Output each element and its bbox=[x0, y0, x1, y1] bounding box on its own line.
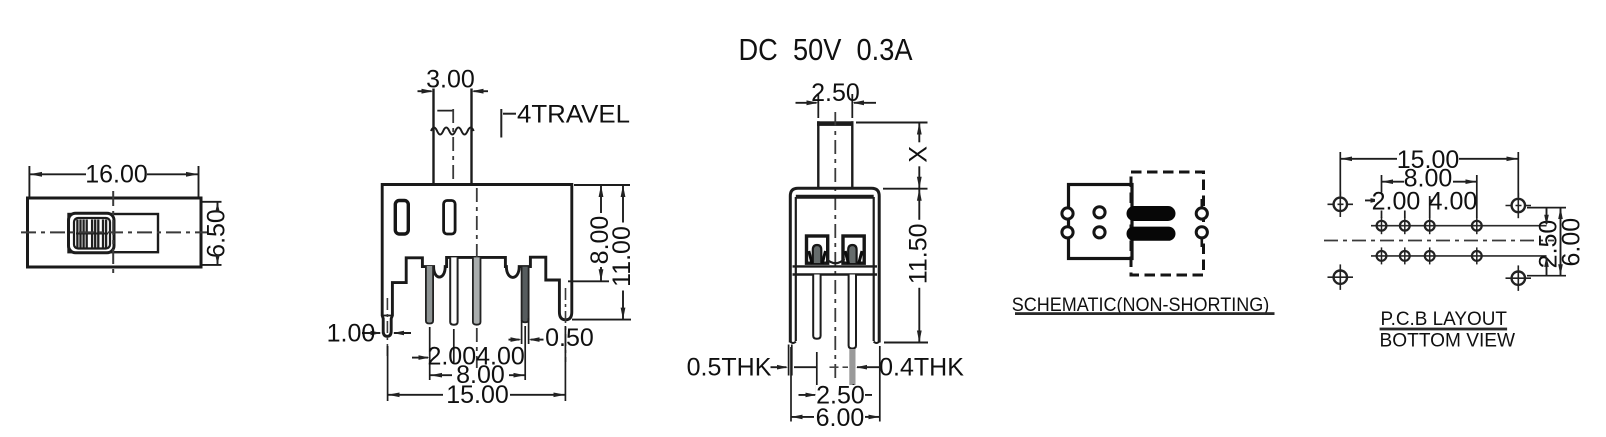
0.5THK leader bbox=[771, 366, 787, 368]
front view stem edges bbox=[432, 89, 434, 185]
dim 11.50 extension line bottom bbox=[884, 342, 928, 344]
svg-text:0.4THK: 0.4THK bbox=[879, 354, 964, 382]
pcb pad row lines bbox=[1371, 225, 1547, 227]
dim 2.50 bottom extension lines bbox=[816, 352, 818, 400]
svg-text:X: X bbox=[905, 146, 933, 163]
svg-text:DC 50V 0.3A: DC 50V 0.3A bbox=[739, 32, 913, 67]
dim pcb 4.00 text bbox=[1429, 188, 1478, 216]
side view contact crimps bbox=[809, 251, 862, 264]
svg-text:P.C.B LAYOUT: P.C.B LAYOUT bbox=[1380, 308, 1507, 330]
top view vertical centerline bbox=[112, 191, 114, 275]
top view knob inner outline bbox=[74, 218, 110, 249]
dim pcb 8.00 extension lines bbox=[1381, 175, 1383, 218]
svg-text:6.50: 6.50 bbox=[203, 209, 231, 258]
svg-text:1.00: 1.00 bbox=[327, 320, 376, 348]
dim 16.00 dimension line bbox=[29, 173, 86, 175]
side view left contact box bbox=[807, 236, 828, 263]
dim pcb 2.50 text (rotated) bbox=[1535, 220, 1563, 269]
dim 6.50 dimension line bbox=[217, 202, 219, 208]
dim X extension lines bbox=[856, 122, 928, 124]
svg-text:11.50: 11.50 bbox=[904, 223, 932, 284]
dim pcb 8.00 dimension line bbox=[1382, 181, 1407, 183]
schematic dashed frame bbox=[1131, 172, 1204, 275]
pcb big hole top-right bbox=[1506, 193, 1532, 219]
pcb big hole bottom-right bbox=[1506, 265, 1532, 291]
pcb big hole top-left bbox=[1328, 192, 1354, 218]
dim 11.00 text (rotated) bbox=[608, 223, 636, 291]
pin extension lines for bottom dims bbox=[429, 327, 431, 380]
dim 15.00 dimension line bbox=[388, 394, 443, 396]
side view base plate bbox=[793, 265, 878, 267]
front view stem centerline bbox=[452, 109, 454, 200]
front view pin 2 bbox=[450, 257, 457, 324]
dim X dimension line bbox=[918, 123, 920, 189]
side view right inner pin bbox=[849, 275, 856, 349]
dim 6.00 extension lines bbox=[790, 347, 792, 422]
dim 0.50 leader bbox=[509, 339, 520, 341]
schematic right terminal stubs bbox=[1201, 199, 1204, 208]
dim 6.50 text (rotated) bbox=[203, 209, 231, 259]
side view stem edges bbox=[817, 121, 819, 189]
dim 2.50 top dimension line bbox=[796, 102, 817, 104]
front view right mounting slot bbox=[444, 201, 456, 235]
svg-text:4TRAVEL: 4TRAVEL bbox=[517, 101, 630, 129]
svg-text:BOTTOM VIEW: BOTTOM VIEW bbox=[1380, 330, 1516, 352]
svg-text:0.50: 0.50 bbox=[545, 324, 594, 352]
dim pcb 6.00 extension lines bbox=[1527, 207, 1566, 209]
dim 8.00 right extension lines bbox=[574, 184, 630, 186]
dim pcb 6.00 dimension line bbox=[1560, 208, 1562, 276]
dim 6.50 extension lines bbox=[202, 201, 222, 203]
side view centerline bbox=[834, 112, 836, 380]
pcb small pads row 1 bbox=[1377, 217, 1482, 234]
top view knob serration hatch bbox=[77, 220, 106, 248]
side view left inner pin bbox=[813, 275, 820, 339]
front view right leg centerline bbox=[565, 288, 567, 362]
side view centre cup bbox=[827, 259, 845, 263]
svg-text:11.00: 11.00 bbox=[608, 226, 636, 287]
dim X text (rotated) bbox=[905, 142, 933, 166]
schematic solid frame bbox=[1069, 185, 1133, 259]
dim 0.50 extension ticks bbox=[521, 320, 523, 344]
svg-text:2.00: 2.00 bbox=[1372, 188, 1421, 216]
0.5THK leg thickness extension lines bbox=[788, 345, 790, 376]
side view frame inner top line bbox=[796, 195, 874, 199]
dim pcb 2.50 dimension line bbox=[1546, 208, 1548, 225]
svg-text:6.00: 6.00 bbox=[1557, 218, 1585, 267]
front view stem travel tick bbox=[437, 110, 453, 112]
front view left leg crimp bbox=[382, 315, 392, 317]
side view right contact box bbox=[843, 236, 864, 263]
top view knob outer bbox=[69, 213, 115, 253]
dim 8.00 right dimension line bbox=[600, 185, 602, 281]
dim pcb 6.00 text (rotated) bbox=[1557, 218, 1585, 267]
front view body outline bbox=[382, 185, 572, 337]
dim pcb 15.00 dimension line bbox=[1340, 158, 1397, 160]
dim 15.00 extension lines bbox=[387, 346, 389, 401]
svg-text:3.00: 3.00 bbox=[426, 66, 475, 94]
side view right contact pin head bbox=[848, 245, 856, 263]
dim pcb 15.00 extension lines bbox=[1339, 152, 1341, 196]
side view frame leg bottoms bbox=[790, 342, 796, 344]
side view frame inner edges bbox=[795, 197, 797, 341]
pcb title underline bbox=[1380, 328, 1508, 331]
schematic title underline bbox=[1015, 312, 1275, 315]
pcb centerline horizontal bbox=[1324, 240, 1554, 242]
dim 11.50 text (rotated) bbox=[904, 220, 932, 288]
dim 8.00 right text (rotated) bbox=[586, 213, 614, 267]
pcb small pads row 2 bbox=[1377, 247, 1482, 264]
front view left leg centerline bbox=[386, 298, 388, 360]
dim pcb 2.00 extension lines bbox=[1404, 196, 1406, 218]
pcb big hole bottom-left bbox=[1328, 264, 1354, 290]
dim 6.00 dimension line bbox=[791, 416, 814, 418]
dim 2.50 top extension lines bbox=[817, 94, 819, 118]
dim 11.00 dimension line bbox=[622, 185, 624, 320]
svg-text:0.5THK: 0.5THK bbox=[687, 354, 772, 382]
4TRAVEL leader bbox=[500, 109, 502, 138]
dim pcb 2.00 text bbox=[1372, 188, 1421, 216]
dim 11.00 extension line bottom bbox=[572, 319, 631, 321]
side view stem cap bbox=[817, 121, 854, 126]
front view pin 1 bbox=[426, 266, 433, 324]
front view stem break zigzag bbox=[431, 128, 474, 135]
side view left contact pin head bbox=[813, 245, 822, 263]
schematic terminal circles bbox=[1062, 207, 1208, 238]
dim 8.00 bottom dimension line bbox=[430, 374, 452, 376]
dim pcb 8.00 text bbox=[1404, 165, 1453, 193]
dim 11.50 dimension line bbox=[918, 189, 920, 343]
schematic wiper bar top bbox=[1127, 206, 1176, 221]
front view pin 4 bbox=[522, 267, 529, 323]
dim 16.00 extension lines bbox=[28, 166, 30, 197]
front view pin 3 bbox=[473, 257, 481, 324]
front view left mounting slot bbox=[395, 201, 408, 235]
dim 2.50 bottom dimension line bbox=[799, 394, 816, 396]
svg-text:4.00: 4.00 bbox=[1429, 188, 1478, 216]
dim pcb 4.00 dimension line + arrows bbox=[1430, 199, 1477, 201]
dim pcb 2.00 dimension line + arrows bbox=[1365, 199, 1382, 201]
top view body outline bbox=[28, 198, 202, 267]
svg-text:16.00: 16.00 bbox=[85, 161, 148, 189]
dim 3.00 dimension line bbox=[418, 90, 432, 92]
side view metal frame outline bbox=[790, 188, 879, 342]
side view right pin grey tail bbox=[849, 349, 855, 385]
svg-text:6.00: 6.00 bbox=[816, 404, 865, 432]
svg-text:2.50: 2.50 bbox=[811, 79, 860, 107]
dim 2.00 dimension line bbox=[412, 357, 428, 359]
top view slider recess bbox=[69, 214, 159, 252]
front view body vertical centerline bbox=[476, 188, 478, 368]
top view horizontal centerline bbox=[21, 231, 209, 233]
svg-text:15.00: 15.00 bbox=[446, 381, 509, 409]
dim 2.50 bottom text bbox=[816, 382, 865, 410]
schematic wiper bar bottom bbox=[1127, 227, 1176, 241]
0.4THK leader bbox=[830, 366, 839, 368]
dim 1.00 leader bbox=[362, 332, 380, 334]
